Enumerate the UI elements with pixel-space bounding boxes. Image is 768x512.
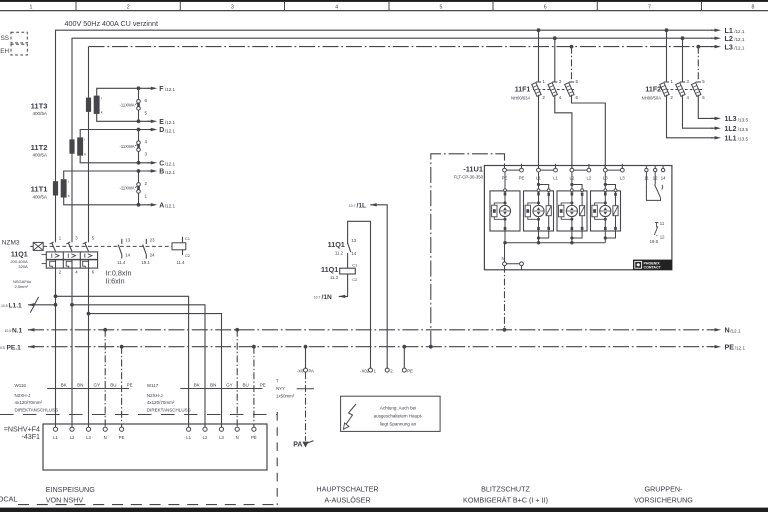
- svg-text:11F1: 11F1: [515, 86, 531, 93]
- svg-text:NH00/50A: NH00/50A: [642, 96, 662, 101]
- terminal pair L2 L2: [572, 169, 589, 171]
- breaker auxiliary contact 23/24: [145, 239, 147, 244]
- svg-text:k: k: [84, 152, 86, 156]
- spark gap: [546, 206, 551, 216]
- svg-text:12: 12: [660, 234, 665, 239]
- wire -11U1 N to N.1 (dash-dot): [504, 266, 506, 330]
- wire N to cable W117 (dash-dot): [236, 330, 238, 427]
- svg-text:C1: C1: [185, 236, 191, 241]
- thermal disconnect: [525, 205, 530, 217]
- terminal N: [103, 427, 107, 431]
- wire L2 drop to 11F2: [682, 38, 684, 82]
- svg-text:400/5A: 400/5A: [32, 194, 47, 199]
- breaker trip unit box: [46, 252, 97, 260]
- svg-text:E: E: [159, 119, 164, 126]
- terminal -11XWA pins 6/5: [137, 103, 140, 107]
- surge module PE: [490, 191, 520, 231]
- wire X02-PE to PE.1: [403, 347, 405, 368]
- fuse pole pins 1/2: [536, 81, 541, 83]
- svg-text:k: k: [101, 111, 103, 115]
- breaker pole contact pin 3/4: [68, 243, 72, 252]
- terminal -11XWA pins 2/1: [137, 186, 140, 190]
- svg-text:/12.1: /12.1: [165, 162, 176, 167]
- svg-text:4x120/70mm²: 4x120/70mm²: [147, 400, 175, 405]
- wire CT 11T2 secondary top to D/12.1: [80, 130, 149, 138]
- svg-text:0.5: 0.5: [0, 346, 5, 350]
- svg-text:400V 50Hz 400A CU verzinnt: 400V 50Hz 400A CU verzinnt: [65, 19, 159, 28]
- wire net L1.1 entry from 10.5: [28, 303, 35, 306]
- current transformer 11T1 400/5A: [53, 181, 58, 195]
- wire net 1L3/13.5: [698, 95, 713, 119]
- svg-text:NH00/63A: NH00/63A: [511, 96, 531, 101]
- svg-text:23: 23: [150, 238, 155, 243]
- svg-text:k: k: [68, 194, 70, 198]
- gas discharge tube path: [570, 183, 573, 186]
- coil 11Q1 C1/C2 (11.3): [340, 268, 356, 274]
- svg-text:11Q1: 11Q1: [11, 252, 28, 259]
- svg-text:11F2: 11F2: [645, 86, 661, 93]
- spark gap: [613, 206, 618, 216]
- function area boundary (dashed): [276, 412, 278, 505]
- source box =NSHV+F4 -43F1: [43, 424, 267, 470]
- svg-text:PE: PE: [725, 342, 735, 351]
- PE feed to -11U1 (dash-dot): [431, 154, 505, 347]
- breaker auxiliary contact 13/14: [121, 239, 123, 244]
- contact terminals 11 12 14: [645, 166, 647, 169]
- wire net 1L1/13.5: [667, 95, 714, 138]
- svg-text:-11XWA: -11XWA: [119, 186, 134, 191]
- svg-text:N2XH-J: N2XH-J: [147, 393, 163, 398]
- svg-text:KOMBIGERÄT B+C (I + II): KOMBIGERÄT B+C (I + II): [463, 496, 548, 505]
- svg-text:PE: PE: [407, 368, 413, 373]
- cable W116 N2XH-J 4x120/70mm2: [47, 388, 129, 390]
- svg-text:VON NSHV: VON NSHV: [46, 496, 84, 505]
- fuse pole pins 5/6: [696, 81, 701, 83]
- terminal pair L1 L1: [539, 169, 556, 171]
- wire L1 drop to 11F1: [538, 30, 540, 82]
- svg-text:L3: L3: [725, 42, 733, 51]
- varistor: [600, 205, 611, 216]
- svg-text:L1: L1: [186, 435, 191, 440]
- lightning icon: [346, 404, 356, 425]
- svg-text:24: 24: [150, 253, 155, 258]
- svg-text:11T2: 11T2: [31, 143, 48, 152]
- fuse link dashed 11F1: [533, 89, 576, 91]
- terminal N pair: [504, 243, 506, 262]
- svg-text:1: 1: [30, 5, 33, 11]
- svg-text:DIREKTANSCHLUSS: DIREKTANSCHLUSS: [147, 408, 191, 413]
- wire net 1L2/13.5: [683, 95, 714, 128]
- wire PE to cable W117 (dash-dot): [253, 347, 255, 427]
- svg-text:SS: SS: [1, 35, 9, 42]
- svg-text:10.5: 10.5: [5, 329, 12, 333]
- svg-text:L3: L3: [219, 435, 224, 440]
- wire net 1L from 10.7: [370, 203, 377, 206]
- svg-text:/12.1: /12.1: [730, 329, 741, 334]
- svg-text:11Q1: 11Q1: [328, 240, 345, 249]
- wire CT 11T1 secondary top to B/12.1: [64, 171, 150, 179]
- svg-text:400/5A: 400/5A: [32, 111, 47, 116]
- wire net 1N to 10.7: [339, 274, 348, 296]
- svg-text:=NSHV+F4: =NSHV+F4: [4, 425, 40, 433]
- svg-text:L3: L3: [86, 435, 91, 440]
- svg-text:11Q1: 11Q1: [321, 265, 338, 274]
- wire CT 11T1 secondary bottom to A/12.1: [64, 198, 150, 205]
- svg-text:3: 3: [231, 5, 234, 11]
- terminal L1: [53, 427, 57, 431]
- svg-text:NZM3: NZM3: [2, 239, 20, 246]
- svg-text:C: C: [159, 160, 164, 167]
- svg-text:EINSPEISUNG: EINSPEISUNG: [46, 485, 96, 494]
- terminal PE: [120, 427, 124, 431]
- title bar: [0, 0, 768, 2]
- thermal trip element: [66, 261, 72, 268]
- svg-text:N: N: [104, 435, 107, 440]
- svg-text:10.5: 10.5: [1, 304, 8, 308]
- svg-text:14: 14: [125, 253, 130, 258]
- fuse pole pins 3/4: [680, 81, 685, 83]
- svg-text:/1L: /1L: [357, 202, 367, 209]
- terminal PE: [252, 427, 256, 431]
- svg-text:Achtung: Auch bei: Achtung: Auch bei: [380, 405, 416, 410]
- svg-text:5: 5: [440, 5, 443, 11]
- wire PE to cable W116 (dash-dot): [121, 347, 123, 427]
- svg-text:DIREKTANSCHLUSS: DIREKTANSCHLUSS: [15, 408, 59, 413]
- svg-text:2,5mm²: 2,5mm²: [15, 284, 29, 289]
- svg-text:ausgeschaltetem Haupt-: ausgeschaltetem Haupt-: [374, 413, 423, 418]
- svg-text:N: N: [236, 435, 239, 440]
- svg-text:BLITZSCHUTZ: BLITZSCHUTZ: [481, 485, 530, 494]
- current transformer 11T2 400/5A: [69, 139, 74, 153]
- terminal L2: [203, 427, 207, 431]
- svg-text:OCAL: OCAL: [0, 495, 18, 504]
- breaker pole contact pin 1/2: [52, 243, 56, 252]
- wire terminal link 11T3: [138, 88, 140, 121]
- svg-text:19.1: 19.1: [141, 260, 150, 265]
- wire CT 11T3 secondary bottom to E/12.1: [97, 114, 150, 121]
- svg-text:/12.1: /12.1: [165, 204, 176, 209]
- svg-text:19.6: 19.6: [650, 239, 659, 244]
- svg-text:T: T: [276, 378, 279, 383]
- svg-text:VORSICHERUNG: VORSICHERUNG: [634, 496, 693, 505]
- wire L3 to cable W117: [89, 314, 222, 428]
- svg-text:C1: C1: [352, 263, 358, 268]
- svg-text:GY: GY: [94, 382, 101, 387]
- svg-text:L3: L3: [620, 176, 625, 181]
- svg-text:/13.5: /13.5: [738, 117, 749, 122]
- wire L2 drop to 11F1: [554, 38, 556, 82]
- svg-text:11.3: 11.3: [330, 275, 339, 280]
- svg-text:W117: W117: [147, 383, 159, 388]
- gas discharge tube path: [537, 183, 540, 186]
- svg-text:/12.1: /12.1: [734, 46, 745, 51]
- svg-text:7: 7: [648, 5, 651, 11]
- gas discharge tube path: [604, 183, 607, 186]
- fuse pole pins 3/4: [552, 81, 557, 83]
- svg-text:/12.1: /12.1: [165, 87, 176, 92]
- svg-text:PE: PE: [260, 382, 266, 387]
- spark gap: [580, 206, 585, 216]
- svg-text:F: F: [159, 86, 163, 93]
- svg-text:CONTACT: CONTACT: [644, 266, 662, 270]
- breaker pole contact pin 5/6: [85, 243, 89, 252]
- svg-text:N2XH-J: N2XH-J: [15, 393, 31, 398]
- svg-text:11T1: 11T1: [31, 185, 49, 194]
- trip element I>: [67, 254, 69, 258]
- svg-text:C2: C2: [352, 277, 358, 282]
- svg-text:1L3: 1L3: [725, 116, 737, 123]
- svg-text:14: 14: [661, 176, 666, 181]
- fuse link dashed 11F2: [661, 89, 703, 91]
- changeover contact symbol: [645, 172, 647, 185]
- svg-text:PE: PE: [519, 176, 525, 181]
- svg-text:11.4: 11.4: [117, 260, 126, 265]
- svg-text:11.4: 11.4: [176, 260, 185, 265]
- svg-text:PA: PA: [293, 441, 302, 448]
- manufacturer logo: [633, 260, 672, 270]
- cable W117 N2XH-J 4x120/70mm2: [180, 388, 262, 390]
- surge module L: [524, 191, 554, 231]
- svg-text:1L1: 1L1: [725, 136, 737, 143]
- thermal trip element: [50, 261, 56, 268]
- thermal trip element: [83, 261, 89, 268]
- svg-text:/13.5: /13.5: [738, 127, 749, 132]
- svg-text:320A: 320A: [18, 264, 28, 269]
- svg-text:/12.1: /12.1: [734, 37, 745, 42]
- svg-text:-11U1: -11U1: [463, 165, 483, 174]
- svg-text:BK: BK: [61, 382, 67, 387]
- svg-text:GRUPPEN-: GRUPPEN-: [645, 485, 684, 494]
- svg-text:8: 8: [752, 5, 755, 11]
- trip element I>: [51, 254, 53, 258]
- auxiliary contact 11Q1 13/14 (11.2): [348, 243, 351, 252]
- varistor: [499, 205, 510, 216]
- surge arrester -11U1 FLT-CP-3C-350: [484, 166, 672, 270]
- svg-text:4x120/70mm²: 4x120/70mm²: [15, 400, 43, 405]
- svg-text:L2: L2: [70, 435, 75, 440]
- wire L1 to cable W117: [56, 296, 189, 427]
- terminal L1: [187, 427, 191, 431]
- svg-text:/12.1: /12.1: [734, 29, 745, 34]
- surge module L: [557, 191, 587, 231]
- svg-text:A-AUSLÖSER: A-AUSLÖSER: [324, 496, 370, 505]
- svg-text:PA: PA: [309, 368, 315, 373]
- svg-text:1L2: 1L2: [725, 126, 737, 133]
- svg-text:14: 14: [351, 251, 356, 256]
- svg-text:-43F1: -43F1: [21, 433, 40, 441]
- wire CT 11T2 secondary bottom to C/12.1: [80, 156, 149, 163]
- svg-text:BN: BN: [77, 382, 83, 387]
- thermal disconnect: [592, 205, 597, 217]
- svg-text:BK: BK: [194, 382, 200, 387]
- terminal -X02:2: [385, 368, 389, 372]
- svg-text:N: N: [725, 326, 730, 335]
- terminal pair L3 L3: [605, 169, 622, 171]
- fuse pole pins 1/2: [664, 81, 669, 83]
- wire 11F1:6 to -11U1 L3: [572, 95, 606, 168]
- svg-text:2: 2: [127, 5, 130, 11]
- svg-text:13: 13: [351, 238, 356, 243]
- svg-text:/12.1: /12.1: [165, 120, 176, 125]
- wire 11F1:2 to -11U1 L1: [538, 95, 540, 168]
- wire L3 drop to 11F2 (dash-dot): [697, 47, 699, 82]
- svg-text:PE: PE: [119, 435, 125, 440]
- svg-text:EH: EH: [0, 48, 9, 55]
- svg-text:FLT-CP-30-350: FLT-CP-30-350: [454, 174, 484, 179]
- svg-text:N.1: N.1: [12, 327, 23, 334]
- wire net L3 bus (dash-dot): [88, 47, 90, 243]
- svg-text:N: N: [501, 256, 504, 261]
- svg-text:/12.1: /12.1: [165, 128, 176, 133]
- svg-text:D: D: [159, 127, 164, 134]
- svg-text:/12.1: /12.1: [735, 346, 746, 351]
- wire L3 drop to 11F1 (dash-dot): [571, 47, 573, 82]
- svg-text:L1: L1: [53, 435, 58, 440]
- wire net PE.1 (dash-dot): [28, 345, 35, 348]
- svg-text:11T3: 11T3: [31, 101, 48, 110]
- svg-text:liegt Spannung an: liegt Spannung an: [380, 422, 417, 427]
- svg-text:Ii:6xIn: Ii:6xIn: [106, 277, 125, 286]
- breaker operating mechanism: [30, 245, 33, 247]
- terminal L2: [70, 427, 74, 431]
- svg-text:BU: BU: [110, 382, 116, 387]
- svg-text:/1N: /1N: [322, 294, 332, 301]
- module output bus: [505, 242, 606, 244]
- svg-text:BN: BN: [210, 382, 216, 387]
- svg-text:C2: C2: [185, 253, 191, 258]
- terminal L3: [219, 427, 223, 431]
- terminal N: [235, 427, 239, 431]
- svg-text:PE: PE: [251, 435, 257, 440]
- svg-text:10.7: 10.7: [314, 295, 321, 299]
- terminal pair PE PE: [505, 169, 522, 171]
- svg-text:BU: BU: [242, 382, 248, 387]
- bottom bar: [0, 508, 768, 512]
- wire L1 drop to 11F2: [666, 30, 668, 82]
- thermal disconnect: [492, 205, 497, 217]
- svg-text:PE: PE: [127, 382, 133, 387]
- wire 11F1:4 to -11U1 L2: [555, 95, 572, 168]
- varistor: [533, 205, 544, 216]
- svg-text:4: 4: [335, 5, 338, 11]
- breaker undervoltage release coil C1/C2: [172, 243, 186, 250]
- wire L3 to cable W116: [88, 260, 90, 427]
- terminal -X02:PE: [402, 368, 406, 372]
- wire terminal link 11T2: [138, 130, 140, 163]
- wire N to cable W116 (dash-dot): [104, 330, 106, 427]
- wire L1 to cable W116: [55, 260, 57, 427]
- signal contact 11/12 to 19.6: [655, 221, 659, 223]
- svg-text:W116: W116: [15, 383, 27, 388]
- wire net L2 bus: [72, 38, 713, 242]
- svg-text:-11XWA: -11XWA: [119, 102, 134, 107]
- wire L2 to cable W117: [72, 305, 205, 427]
- current transformer 11T3 400/5A: [86, 98, 91, 112]
- svg-text:/12.1: /12.1: [165, 170, 176, 175]
- svg-text:11: 11: [660, 221, 665, 226]
- wire CT 11T3 secondary top to F/12.1: [97, 88, 150, 95]
- trip element I>: [84, 254, 86, 258]
- wire net L1 bus: [56, 30, 713, 242]
- thermal disconnect: [559, 205, 564, 217]
- svg-text:L1: L1: [553, 176, 558, 181]
- breaker trip linkage (dashed): [43, 245, 172, 247]
- svg-text:NYY: NYY: [276, 386, 285, 391]
- terminal -11XWA pins 4/3: [137, 144, 140, 148]
- terminal L3: [86, 427, 90, 431]
- svg-text:PE.1: PE.1: [7, 344, 22, 351]
- wire terminal link 11T1: [138, 171, 140, 205]
- wire L2 to cable W116: [71, 260, 73, 427]
- svg-text:13: 13: [125, 238, 130, 243]
- svg-text:10.7: 10.7: [349, 204, 356, 208]
- fuse pole pins 5/6: [569, 81, 574, 83]
- svg-text:B: B: [159, 169, 164, 176]
- svg-text:L2: L2: [587, 176, 592, 181]
- svg-text:A: A: [159, 202, 164, 209]
- function area boundary top (dashed): [0, 414, 277, 416]
- terminal -X02:1: [369, 368, 373, 372]
- svg-text:6: 6: [544, 5, 547, 11]
- surge module L: [591, 191, 621, 231]
- svg-text:11.2: 11.2: [335, 251, 344, 256]
- warning note box: [341, 396, 441, 431]
- varistor: [566, 205, 577, 216]
- svg-text:-11XWA: -11XWA: [119, 144, 134, 149]
- svg-text:/13.5: /13.5: [738, 137, 749, 142]
- svg-text:400/5A: 400/5A: [32, 153, 47, 158]
- svg-text:1x50mm²: 1x50mm²: [276, 393, 295, 398]
- svg-text:-X0: -X0: [297, 368, 304, 373]
- svg-text:HAUPTSCHALTER: HAUPTSCHALTER: [316, 485, 378, 494]
- wire X02-1 to aux contact branch: [348, 221, 371, 368]
- wire net N.1 (dash-dot): [28, 328, 35, 331]
- svg-text:L1.1: L1.1: [9, 302, 23, 309]
- svg-text:GY: GY: [226, 382, 233, 387]
- svg-text:L2: L2: [203, 435, 208, 440]
